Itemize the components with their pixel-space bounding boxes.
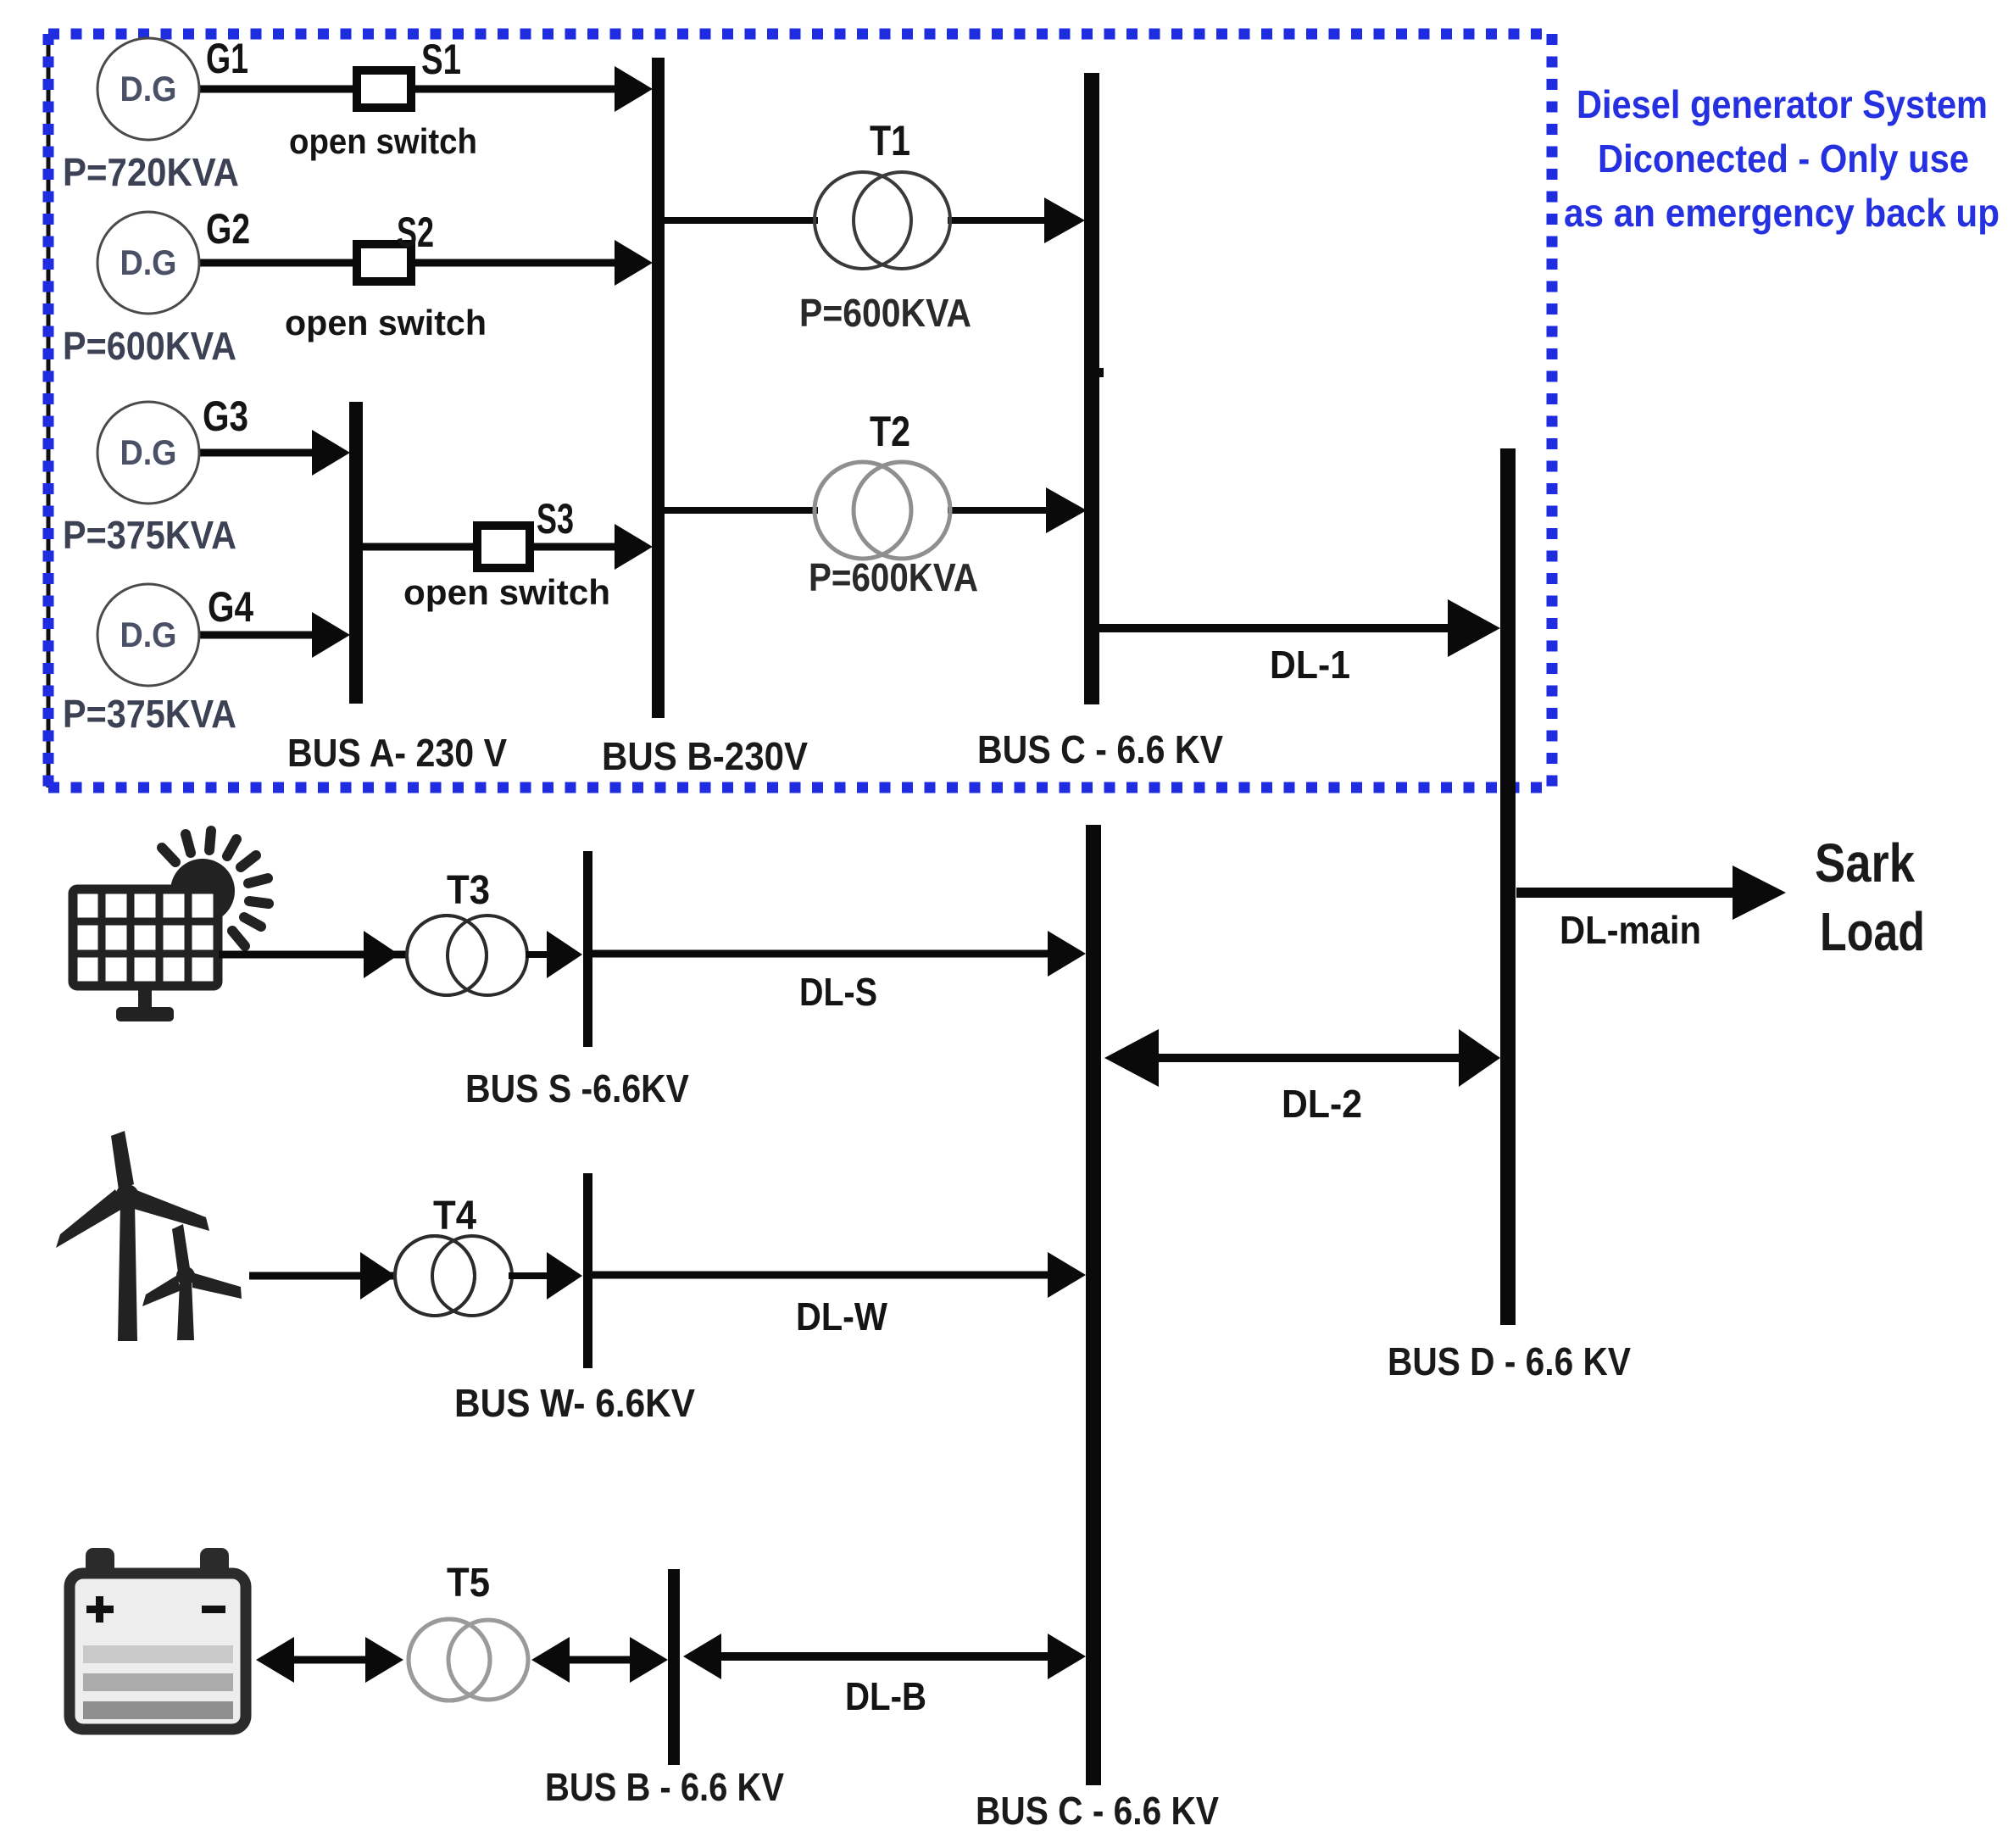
svg-text:DL-W: DL-W bbox=[796, 1294, 888, 1339]
svg-text:P=600KVA: P=600KVA bbox=[809, 555, 978, 599]
svg-text:DL-1: DL-1 bbox=[1270, 643, 1350, 687]
svg-text:T2: T2 bbox=[870, 408, 910, 455]
wire DL-1 from BUS C to BUS D bbox=[1099, 599, 1500, 657]
svg-text:G1: G1 bbox=[206, 35, 248, 82]
svg-text:BUS W- 6.6KV: BUS W- 6.6KV bbox=[454, 1381, 695, 1425]
wire DL-W from BUS W to BUS C bbox=[592, 1252, 1086, 1298]
svg-text:BUS C - 6.6 KV: BUS C - 6.6 KV bbox=[976, 1789, 1219, 1833]
bus BUS B 230V bbox=[652, 58, 665, 718]
svg-text:BUS S -6.6KV: BUS S -6.6KV bbox=[465, 1066, 689, 1110]
wire G3 to BUS A bbox=[199, 430, 350, 476]
wire solar to T3 bbox=[219, 931, 407, 978]
wire T2 to BUS C bbox=[948, 487, 1087, 533]
svg-text:DL-main: DL-main bbox=[1560, 908, 1701, 952]
svg-text:BUS D - 6.6 KV: BUS D - 6.6 KV bbox=[1388, 1339, 1631, 1383]
wire BUS B to transformer T1 bbox=[664, 217, 818, 224]
svg-text:S3: S3 bbox=[537, 495, 574, 543]
bus BUS D bbox=[1500, 448, 1516, 1325]
svg-text:G3: G3 bbox=[203, 392, 248, 440]
svg-text:BUS A- 230 V: BUS A- 230 V bbox=[287, 731, 507, 775]
svg-text:open switch: open switch bbox=[403, 572, 610, 612]
wire battery to T5 (double arrow) bbox=[256, 1637, 403, 1683]
svg-text:S2: S2 bbox=[397, 209, 434, 256]
svg-text:P=600KVA: P=600KVA bbox=[799, 291, 971, 335]
bus BUS C 6.6KV upper bbox=[1084, 73, 1104, 704]
battery icon bbox=[70, 1548, 246, 1729]
svg-text:D.G: D.G bbox=[120, 69, 177, 109]
wire T3 to BUS S bbox=[526, 931, 582, 978]
svg-text:D.G: D.G bbox=[120, 615, 177, 654]
transformer T4 bbox=[395, 1236, 512, 1316]
wire DL-main from BUS D to Sark Load bbox=[1516, 866, 1786, 920]
svg-text:T1: T1 bbox=[870, 117, 910, 164]
switch S3 (open) bbox=[477, 526, 530, 568]
svg-text:DL-B: DL-B bbox=[845, 1674, 926, 1718]
switch S1 (open) bbox=[357, 70, 411, 108]
svg-text:P=600KVA: P=600KVA bbox=[63, 324, 236, 368]
svg-text:BUS B-230V: BUS B-230V bbox=[602, 734, 808, 778]
svg-text:P=720KVA: P=720KVA bbox=[63, 150, 239, 194]
wire BUS B to transformer T2 bbox=[664, 507, 818, 514]
wire DL-S from BUS S to BUS C bbox=[592, 931, 1086, 977]
wire G2 to BUS B bbox=[199, 240, 653, 286]
wire BUS A to S3 to BUS B bbox=[363, 524, 653, 570]
generator G2 bbox=[97, 212, 199, 314]
svg-text:BUS B - 6.6 KV: BUS B - 6.6 KV bbox=[545, 1765, 784, 1809]
bus BUS W bbox=[583, 1173, 592, 1368]
wire wind to T4 bbox=[249, 1252, 397, 1300]
solar panel icon bbox=[73, 831, 269, 1021]
wire T4 to BUS W bbox=[509, 1252, 582, 1300]
generator G1 bbox=[97, 38, 199, 140]
svg-text:DL-S: DL-S bbox=[799, 970, 877, 1014]
svg-text:P=375KVA: P=375KVA bbox=[63, 513, 236, 557]
wire DL-B from BUS B to BUS C (double arrow) bbox=[683, 1634, 1086, 1679]
transformer T1 bbox=[815, 172, 950, 269]
svg-text:DL-2: DL-2 bbox=[1282, 1082, 1362, 1126]
svg-text:G2: G2 bbox=[206, 205, 250, 253]
wire G4 to BUS A bbox=[199, 612, 350, 658]
svg-text:open switch: open switch bbox=[285, 303, 487, 342]
svg-text:Diesel generator System: Diesel generator System bbox=[1577, 82, 1988, 126]
svg-text:T4: T4 bbox=[433, 1194, 476, 1238]
wind turbines icon bbox=[56, 1131, 242, 1341]
transformer T5 bbox=[409, 1619, 528, 1700]
svg-text:open switch: open switch bbox=[289, 121, 477, 161]
switch S2 (open) bbox=[357, 244, 411, 281]
svg-text:D.G: D.G bbox=[120, 242, 177, 282]
generator G3 bbox=[97, 402, 199, 504]
bus BUS A bbox=[349, 402, 363, 704]
svg-text:T5: T5 bbox=[447, 1561, 490, 1606]
wire T5 to BUS B 6.6KV (double arrow) bbox=[531, 1637, 668, 1683]
svg-text:D.G: D.G bbox=[120, 432, 177, 472]
bus BUS S bbox=[583, 851, 592, 1047]
svg-text:Load: Load bbox=[1820, 901, 1925, 962]
bus BUS B 6.6KV bbox=[668, 1569, 680, 1765]
transformer T2 bbox=[815, 462, 950, 559]
wire G1 to BUS B bbox=[199, 66, 653, 112]
wire DL-2 from BUS C to BUS D (double arrow) bbox=[1104, 1029, 1500, 1087]
svg-text:T3: T3 bbox=[447, 868, 490, 913]
svg-text:Diconected - Only use: Diconected - Only use bbox=[1598, 136, 1969, 181]
label Sark Load bbox=[1815, 832, 1925, 962]
wire T1 to BUS C bbox=[948, 198, 1085, 243]
transformer T3 bbox=[407, 916, 527, 995]
svg-text:P=375KVA: P=375KVA bbox=[63, 692, 236, 736]
svg-text:G4: G4 bbox=[208, 583, 253, 631]
svg-text:BUS C - 6.6 KV: BUS C - 6.6 KV bbox=[977, 727, 1223, 771]
generator G4 bbox=[97, 584, 199, 686]
svg-text:as an emergency back up: as an emergency back up bbox=[1564, 191, 2000, 235]
svg-text:Sark: Sark bbox=[1815, 832, 1915, 893]
diesel generator system boundary (blue dotted box) bbox=[48, 34, 1552, 788]
bus BUS C 6.6KV lower bbox=[1086, 825, 1101, 1785]
svg-text:S1: S1 bbox=[421, 36, 461, 83]
